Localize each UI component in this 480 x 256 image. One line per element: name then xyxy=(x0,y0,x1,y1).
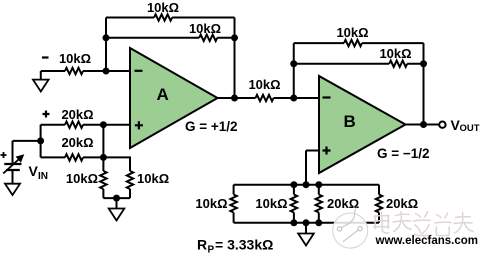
svg-text:10kΩ: 10kΩ xyxy=(147,0,179,15)
ground below R7 R8 xyxy=(109,198,125,220)
resistor R14 20k (parallel) xyxy=(376,185,382,223)
svg-text:G = +1/2: G = +1/2 xyxy=(185,119,238,134)
label VIN xyxy=(29,163,49,182)
label B xyxy=(344,112,356,131)
ground at A minus resistor xyxy=(33,71,49,92)
svg-text:OUT: OUT xyxy=(460,123,480,134)
label plus of VIN xyxy=(1,152,7,158)
wire VIN to node xyxy=(13,141,41,163)
label R3 10kOhm xyxy=(59,51,91,66)
node top rail mid xyxy=(303,181,310,188)
node junction left feedback xyxy=(103,34,110,41)
svg-text:20kΩ: 20kΩ xyxy=(386,196,418,211)
resistor R4 10k (between stages) xyxy=(256,95,274,101)
svg-text:R: R xyxy=(197,237,207,253)
svg-text:10kΩ: 10kΩ xyxy=(66,171,98,186)
label R12 10kOhm xyxy=(255,196,287,211)
resistor R9 10k (B outer feedback) xyxy=(344,40,362,46)
node bottom rail left xyxy=(290,219,297,226)
svg-text:20kΩ: 20kΩ xyxy=(327,196,359,211)
op-amp U1 A xyxy=(130,48,218,148)
svg-text:10kΩ: 10kΩ xyxy=(379,46,411,61)
terminal VOUT xyxy=(439,122,445,128)
resistor R10 10k (B inner feedback) xyxy=(389,61,407,67)
wire A output to B input xyxy=(218,97,320,99)
wire to R8 xyxy=(103,157,130,169)
node attenuator xyxy=(100,154,107,161)
wire B output xyxy=(406,124,440,126)
wire A plus vertical xyxy=(102,125,104,158)
wire B inner feedback xyxy=(294,64,424,125)
node top rail right xyxy=(315,181,322,188)
wire lower 20k to attenuator node xyxy=(41,156,104,158)
wire attenuator top rail xyxy=(234,184,379,186)
svg-text:G = −1/2: G = −1/2 xyxy=(377,146,430,161)
svg-text:20kΩ: 20kΩ xyxy=(61,135,93,150)
ground attenuator xyxy=(298,223,314,246)
label A xyxy=(157,85,169,104)
wire VIN node vertical xyxy=(40,125,42,158)
node VIN junction xyxy=(37,137,44,144)
node junction B output xyxy=(420,121,427,128)
svg-text:10kΩ: 10kΩ xyxy=(137,171,169,186)
watermark text chinese xyxy=(374,212,474,236)
pin A plus xyxy=(135,121,143,129)
wire A outer feedback top xyxy=(106,18,235,38)
resistor R12 10k (parallel) xyxy=(291,185,297,223)
label plus polarity xyxy=(43,111,50,118)
pin B plus xyxy=(323,147,331,155)
label RP value xyxy=(197,237,273,256)
resistor R13 20k (parallel) xyxy=(316,185,322,223)
source VIN variable xyxy=(3,154,24,173)
label R11 10kOhm xyxy=(195,196,227,211)
label R14 20kOhm xyxy=(386,196,418,211)
label gain B xyxy=(377,146,430,161)
pin A minus xyxy=(135,70,143,72)
label R5 20kOhm xyxy=(61,107,93,122)
node junction right feedback xyxy=(231,34,238,41)
label R13 20kOhm xyxy=(327,196,359,211)
ground below VIN xyxy=(5,170,20,195)
wire A inner feedback xyxy=(106,38,235,98)
node junction B minus xyxy=(290,95,297,102)
op-amp U2 B xyxy=(319,76,406,173)
label R8 10kOhm xyxy=(137,171,169,186)
node ground rail A xyxy=(113,195,120,202)
wire B plus input xyxy=(306,151,319,185)
resistor R6 20k (lower) xyxy=(65,154,83,160)
resistor R3 10k (A minus input) xyxy=(65,68,83,74)
label VOUT xyxy=(451,117,480,134)
svg-text:10kΩ: 10kΩ xyxy=(255,196,287,211)
wire B outer feedback top xyxy=(294,43,424,64)
resistor R8 10k (to ground) xyxy=(127,157,133,198)
svg-text:P: P xyxy=(208,245,215,256)
wire A non-inverting input xyxy=(41,124,130,126)
resistor R5 20k (A plus input) xyxy=(65,122,83,128)
watermark logo circle xyxy=(333,208,368,249)
svg-text:V: V xyxy=(29,163,39,179)
label R6 20kOhm xyxy=(61,135,93,150)
wire A inverting input xyxy=(41,70,130,72)
node junction B feedback left xyxy=(290,60,297,67)
svg-text:10kΩ: 10kΩ xyxy=(336,25,368,40)
node bottom rail mid xyxy=(303,219,310,226)
resistor R11 10k (parallel) xyxy=(230,185,236,223)
resistor R2 10k (A inner feedback) xyxy=(199,35,217,41)
node bottom rail right xyxy=(315,219,322,226)
svg-text:IN: IN xyxy=(38,171,48,182)
svg-text:10kΩ: 10kΩ xyxy=(189,21,221,36)
wire attenuator bottom rail xyxy=(234,222,379,224)
node junction A output xyxy=(231,95,238,102)
label R7 10kOhm xyxy=(66,171,98,186)
resistor R7 10k (to ground) xyxy=(100,157,106,198)
node A plus xyxy=(100,121,107,128)
svg-text:B: B xyxy=(344,112,356,131)
svg-text:www.elecfans.com: www.elecfans.com xyxy=(375,235,478,247)
svg-text:20kΩ: 20kΩ xyxy=(61,107,93,122)
label R4 10kOhm xyxy=(248,77,280,92)
svg-text:A: A xyxy=(157,85,169,104)
label R2 10kOhm xyxy=(189,21,221,36)
svg-text:= 3.33kΩ: = 3.33kΩ xyxy=(215,237,273,253)
node junction B feedback right xyxy=(420,60,427,67)
label minus polarity xyxy=(42,56,49,58)
label R10 10kOhm xyxy=(379,46,411,61)
node top rail left xyxy=(290,181,297,188)
label R1 10kOhm xyxy=(147,0,179,15)
node junction A minus xyxy=(103,68,110,75)
svg-text:10kΩ: 10kΩ xyxy=(195,196,227,211)
svg-text:10kΩ: 10kΩ xyxy=(59,51,91,66)
svg-text:10kΩ: 10kΩ xyxy=(248,77,280,92)
label R9 10kOhm xyxy=(336,25,368,40)
resistor R1 10k (A outer feedback) xyxy=(154,14,172,20)
pin B minus xyxy=(323,96,331,98)
label gain A xyxy=(185,119,238,134)
wire bottom rail A xyxy=(103,197,130,199)
watermark text elecfans xyxy=(375,235,478,247)
